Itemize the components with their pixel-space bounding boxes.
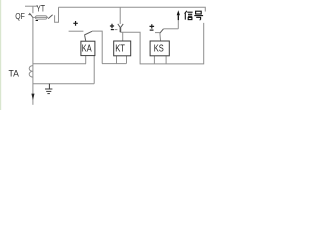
svg-text:YT: YT <box>36 3 45 13</box>
svg-text:KS: KS <box>154 43 164 54</box>
svg-text:QF: QF <box>15 11 25 21</box>
svg-text:KA: KA <box>82 43 92 54</box>
svg-text:KT: KT <box>115 43 125 54</box>
svg-text:TA: TA <box>9 68 19 78</box>
